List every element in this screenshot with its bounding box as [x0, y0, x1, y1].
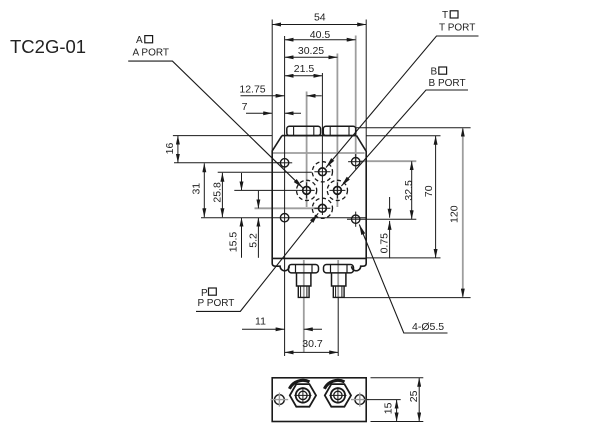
ext line body top row left [173, 135, 272, 137]
leader 4-dia5.5 [359, 225, 447, 334]
bottom view top ext [371, 377, 424, 379]
fitting left stud [298, 286, 309, 297]
dim 21.5 [285, 75, 323, 77]
P port [319, 204, 327, 212]
top cap right [323, 126, 356, 135]
svg-text:31: 31 [191, 183, 203, 195]
T port [319, 168, 327, 176]
gray horizontal bore line in body [273, 152, 365, 154]
svg-text:A PORT: A PORT [133, 48, 170, 59]
gray column line right bolt (40.5 ref) [355, 36, 357, 163]
svg-text:21.5: 21.5 [294, 63, 315, 75]
svg-text:B PORT: B PORT [429, 78, 466, 89]
dim 25.8 [221, 173, 223, 217]
svg-text:16: 16 [164, 143, 176, 155]
top cap left [287, 126, 321, 135]
svg-text:A: A [136, 35, 143, 46]
dim 30.25 [285, 56, 338, 58]
ext line top bolt row left [174, 162, 280, 164]
dim 25 [418, 378, 420, 422]
dim 16 [177, 136, 179, 163]
bolt hole top-right [352, 158, 360, 166]
svg-text:11: 11 [255, 316, 266, 328]
bottom view left nut tab [289, 380, 309, 388]
fitting left neck [297, 273, 311, 286]
dim 0.75 arrows [389, 197, 391, 218]
fitting left hex flange [289, 265, 319, 273]
svg-text:70: 70 [423, 185, 435, 197]
valve body outline [272, 136, 366, 271]
svg-text:P PORT: P PORT [198, 298, 235, 309]
bolt hole top-left [280, 159, 288, 167]
body bottom edge [272, 257, 366, 259]
svg-text:B: B [431, 67, 438, 78]
gray centerline right fitting [337, 260, 339, 298]
svg-text:25: 25 [408, 390, 420, 402]
bottom view left nut hex [290, 384, 316, 407]
ext line bottom-right bolt row [347, 218, 416, 220]
dim 11 [242, 328, 285, 330]
dim 15.5 arrows [241, 173, 243, 190]
dim 70 [366, 135, 440, 137]
dim 12.75 [241, 95, 285, 97]
gray P row extension line [255, 207, 319, 209]
gray column line B port (30.25 ref) [336, 54, 338, 208]
svg-text:30.7: 30.7 [302, 338, 323, 350]
B port [334, 187, 342, 195]
fitting right stud [333, 286, 344, 297]
bottom view mid row line to 15 dim [365, 399, 400, 401]
ext line A/B row [234, 189, 298, 191]
svg-text:T PORT: T PORT [439, 22, 475, 33]
dim 30.7 [337, 298, 339, 356]
dim 7 [246, 112, 272, 114]
bottom view right nut hex [325, 384, 351, 407]
gray column line A port (12.75 ref) [306, 92, 308, 208]
leader P [196, 213, 318, 311]
bottom view bottom ext [371, 421, 424, 423]
black column centerline P/T [321, 73, 323, 215]
bottom view left bolt hole [275, 395, 285, 405]
body top edge [282, 135, 357, 137]
svg-text:T: T [442, 10, 448, 21]
dim 40.5 [285, 39, 356, 41]
gray 32.5 top extension line [361, 160, 417, 162]
ext line T row [218, 171, 312, 173]
A port [303, 187, 311, 195]
dim 5.2 arrows [257, 191, 259, 209]
svg-text:5.2: 5.2 [248, 233, 260, 248]
fitting right hex flange [324, 265, 354, 273]
dim 32.5 [411, 161, 413, 219]
gray 120 dimension line [462, 129, 464, 297]
svg-text:40.5: 40.5 [310, 29, 331, 41]
leader B [341, 90, 468, 186]
bottom view outline [272, 378, 366, 422]
svg-text:25.8: 25.8 [211, 182, 223, 203]
bottom view right nut tab [324, 380, 344, 388]
dim 54 [271, 20, 273, 152]
gray centerline left fitting [303, 260, 305, 352]
svg-text:4-Ø5.5: 4-Ø5.5 [412, 321, 444, 333]
svg-text:0.75: 0.75 [379, 233, 391, 254]
svg-text:30.25: 30.25 [298, 45, 324, 57]
svg-text:12.75: 12.75 [239, 84, 265, 96]
bottom view right bolt hole [355, 395, 365, 405]
svg-text:54: 54 [314, 12, 326, 24]
fitting right neck [332, 273, 346, 286]
leader A [128, 61, 303, 188]
leader T [326, 36, 479, 168]
svg-text:15.5: 15.5 [228, 232, 240, 253]
dim 31 [203, 163, 205, 217]
svg-text:120: 120 [449, 205, 461, 223]
dim 15 [396, 400, 398, 422]
svg-text:7: 7 [242, 101, 248, 113]
svg-text:32.5: 32.5 [403, 180, 415, 201]
bolt hole bottom-right [352, 215, 360, 223]
bolt hole bottom-left [280, 214, 288, 222]
svg-text:15: 15 [383, 402, 395, 414]
dim 120 [356, 127, 471, 129]
black column line left bolt / datum [284, 36, 286, 356]
ext line bottom bolt row [201, 217, 366, 219]
svg-text:TC2G-01: TC2G-01 [10, 36, 86, 57]
